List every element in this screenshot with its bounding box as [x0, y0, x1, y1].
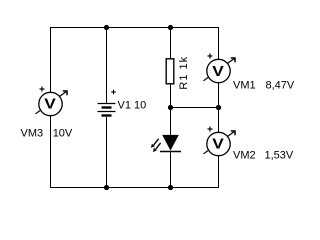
svg-text:V1 10: V1 10: [118, 99, 147, 111]
svg-text:V: V: [44, 95, 56, 112]
svg-text:V: V: [212, 135, 224, 152]
svg-text:VM2: VM2: [233, 150, 256, 162]
svg-text:8,47V: 8,47V: [266, 79, 295, 91]
svg-text:10V: 10V: [53, 127, 73, 139]
svg-text:VM1: VM1: [233, 79, 256, 91]
svg-text:R1 1k: R1 1k: [178, 56, 190, 90]
svg-text:VM3: VM3: [21, 127, 44, 139]
svg-text:1,53V: 1,53V: [265, 150, 294, 162]
svg-text:V: V: [212, 63, 224, 80]
